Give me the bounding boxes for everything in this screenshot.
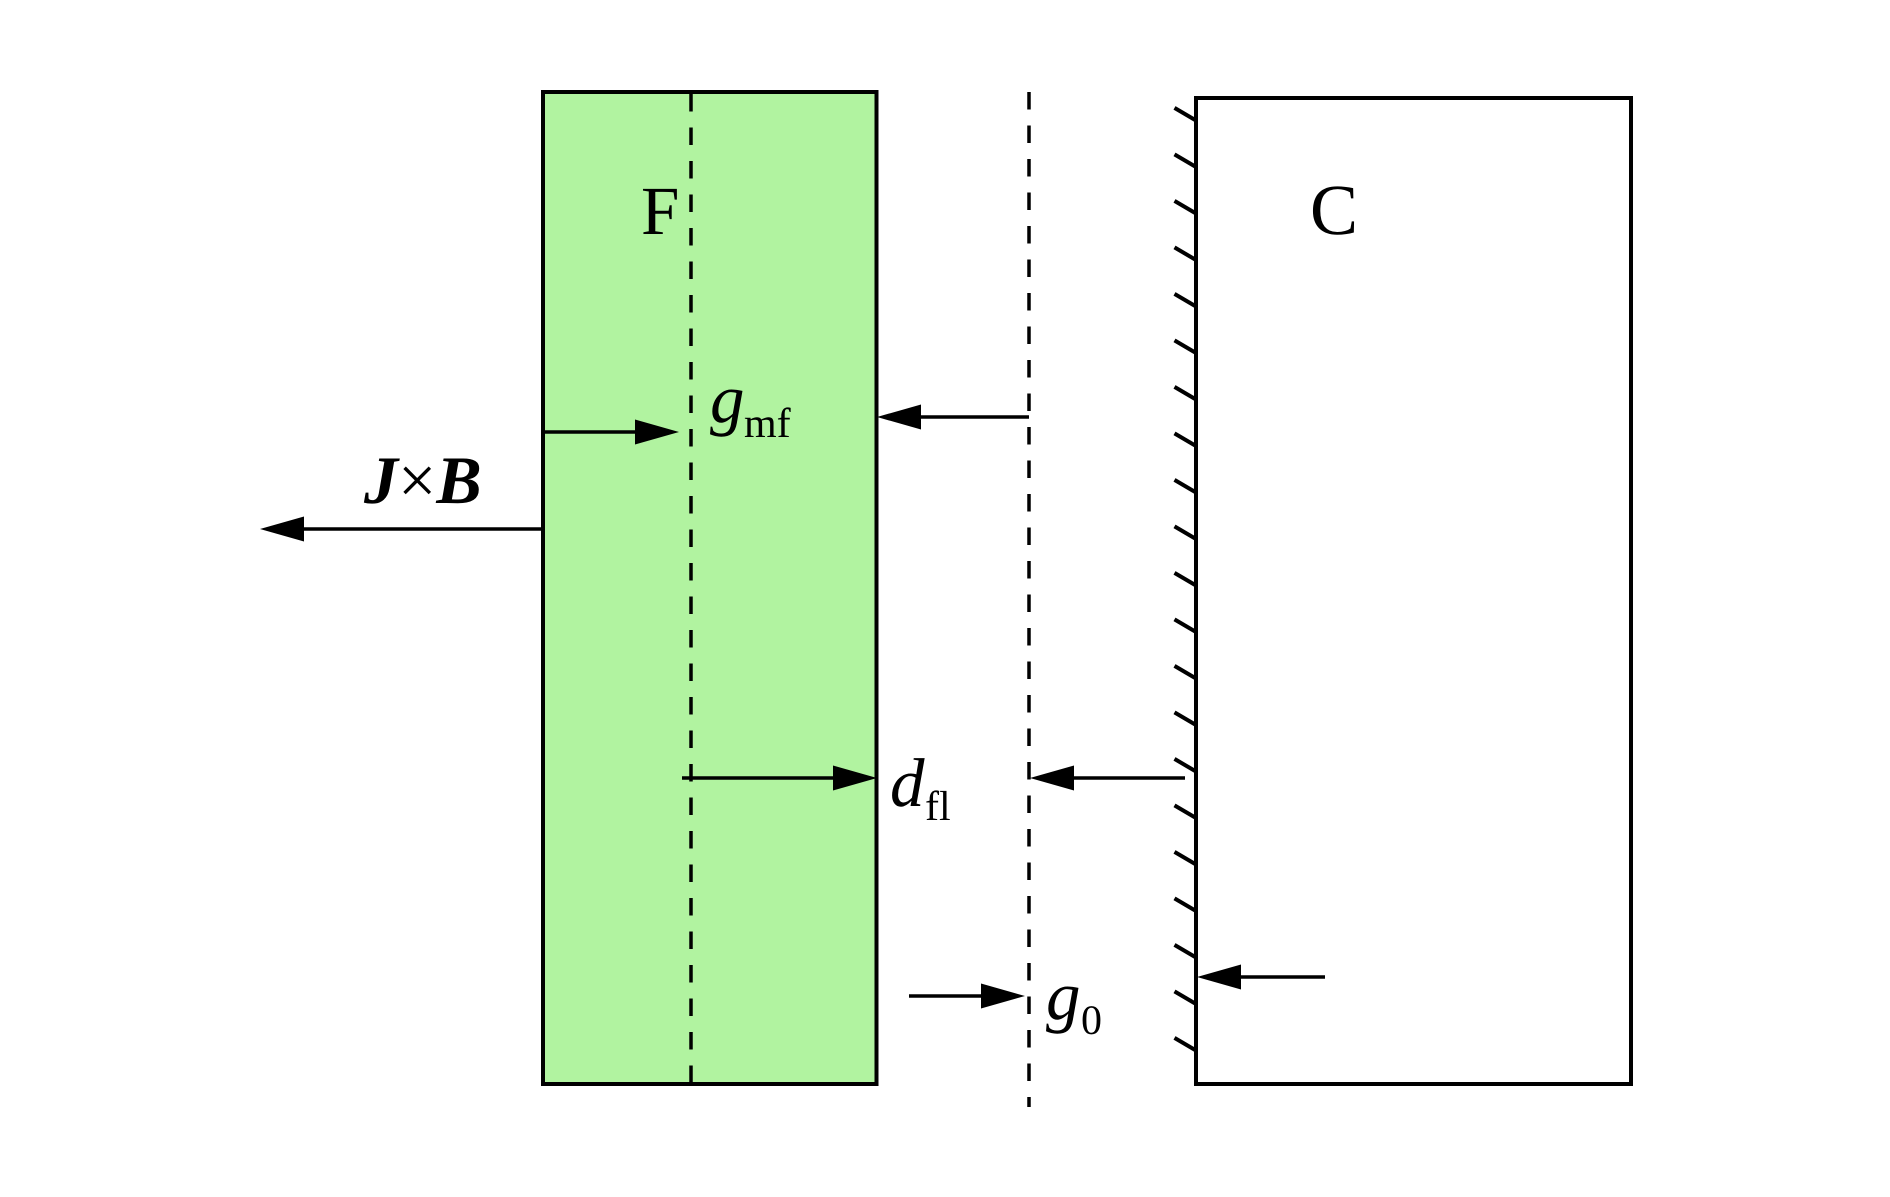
arrow J x B (leftward from F left wall) (260, 517, 543, 542)
label C (1313, 186, 1354, 234)
label g_mf (710, 390, 742, 437)
label d_fl (892, 758, 925, 807)
gap centerline (dashed) (1027, 92, 1031, 1107)
arrow g_0 (rightward toward gap centerline) (909, 984, 1025, 1009)
label F (643, 189, 677, 234)
label g_0 (1046, 987, 1078, 1034)
slab C (white rectangle) (1196, 98, 1631, 1084)
hatching on left wall of C (1175, 108, 1197, 1051)
slab F (green rectangle) (543, 92, 877, 1084)
arrow d_fl (rightward from F centerline to F right wall) (682, 766, 877, 791)
arrow toward g_mf from left wall (rightward) (543, 420, 679, 445)
arrow from C wall to gap centerline (leftward) (1030, 766, 1185, 791)
label J x B (364, 458, 479, 503)
centerline of F (dashed) (689, 94, 693, 1082)
arrow toward F right wall from gap centerline (leftward) (877, 405, 1029, 430)
arrow into C wall (leftward) (1197, 965, 1325, 990)
